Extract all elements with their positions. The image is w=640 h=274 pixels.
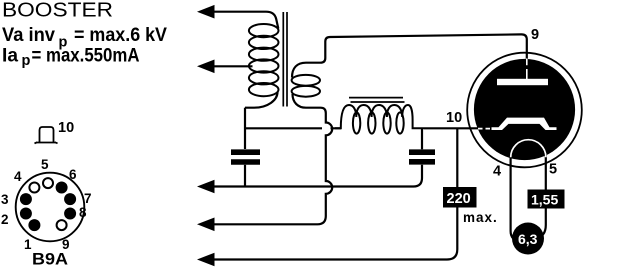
svg-text:1,55: 1,55 [531,192,558,208]
rating line Ia p = max.550mA [2,46,140,70]
value box 1,55 [528,190,565,209]
pin 4 (open) [29,183,39,193]
transformer bottom rail junction / vertical to C1 [244,108,246,149]
tube pin 5 wire [536,154,546,238]
choke hanging loops [353,112,404,133]
svg-text:220: 220 [447,191,471,207]
svg-text:5: 5 [549,162,557,178]
svg-text:8: 8 [79,205,87,220]
svg-text:6,3: 6,3 [518,231,538,247]
primary bottom lead [245,92,278,108]
svg-text:1: 1 [24,237,32,252]
svg-text:3: 3 [1,192,9,207]
tube pin 4 wire [511,154,520,242]
value box 220 [443,187,477,208]
pin 2 (filled) [20,208,32,220]
heater voltage circle 6,3 [512,223,544,255]
tube V1 envelope outer circle [467,53,582,168]
svg-text:5: 5 [41,157,49,172]
secondary bottom lead [293,94,326,113]
svg-text:= max.550mA: = max.550mA [32,46,140,67]
wire from C1 node to choke [245,127,341,129]
anode plate (white bar) [497,79,548,85]
arrow lead 1 (to transformer primary top) [197,5,278,29]
svg-text:10: 10 [446,110,462,126]
vertical wire secondary-bottom to arrow4 with hop-overs [213,113,332,224]
svg-text:max.: max. [463,210,498,225]
heater (white arc) [511,140,546,158]
svg-text:Va inv: Va inv [2,25,55,46]
transformer T1 primary winding [249,24,279,96]
svg-text:4: 4 [14,169,22,184]
transformer core [283,12,287,107]
svg-text:9: 9 [531,27,539,43]
secondary top lead to anode wire [292,34,527,77]
capacitor C2 [409,128,435,162]
pin 7 (filled) [64,193,76,205]
pin 8 (filled) [64,208,76,220]
svg-text:7: 7 [84,191,92,206]
svg-text:2: 2 [1,212,9,227]
ground rail (arrow lead 3) [213,165,422,187]
svg-text:6: 6 [69,167,77,182]
svg-text:10: 10 [58,120,74,136]
svg-text:4: 4 [493,164,501,180]
tube inner black disc [474,59,575,160]
arrow lead 2 (primary tap) [197,60,253,74]
B9A base outline circle [16,173,85,242]
pin 9 (open) [57,220,67,230]
choke L1 winding [335,105,424,128]
transformer T1 secondary winding [292,75,320,97]
svg-text:B9A: B9A [32,250,68,269]
top cap symbol (pin 10 of base) [35,127,58,144]
svg-text:BOOSTER: BOOSTER [2,0,113,22]
pin 6 (filled) [56,182,68,194]
cathode (white) [492,118,557,130]
svg-text:Ia: Ia [2,46,18,67]
anode lead (white, inside disc) [526,59,528,80]
svg-text:= max.6 kV: = max.6 kV [74,25,167,46]
pin 5 (open) [43,178,53,188]
capacitor C1 [231,152,260,185]
wire choke/C2 node to tube cathode (pin 10) [424,127,478,129]
svg-text:p: p [22,53,31,69]
choke L1 core [349,98,405,102]
arrow lead 4 head [197,218,215,232]
pin 1 (filled) [28,219,40,231]
cathode lead dashes (white) [478,128,492,130]
arrow lead 5 head [197,253,215,267]
rating line Va inv p = max.6 kV [2,25,167,51]
vertical wire node-10 down to bottom arrow [213,128,457,259]
base pin labels [1,157,92,252]
pin 3 (filled) [20,193,32,205]
